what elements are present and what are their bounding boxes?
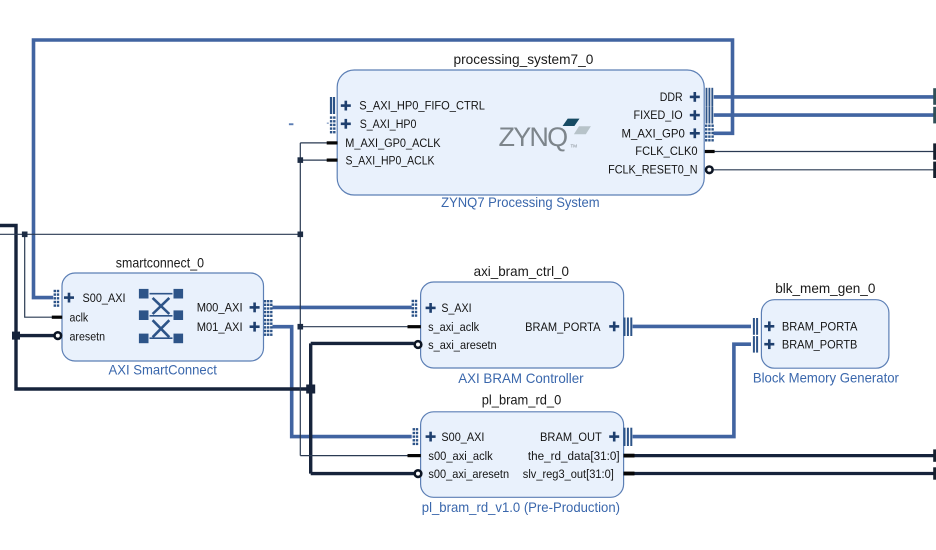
input/output pin stub M_AXI_GP0_ACLK xyxy=(327,141,338,144)
block axi_bram_ctrl_0 xyxy=(421,282,624,368)
plus icon DDR xyxy=(690,92,700,102)
wire net M_AXI_GP0 to S00_AXI xyxy=(34,40,733,298)
interface pin marker (dashed) M01_AXI xyxy=(264,319,273,336)
plus icon BRAM_OUT xyxy=(609,432,619,442)
wire net clk branch M_AXI_GP0_ACLK xyxy=(300,142,327,144)
svg-text:M01_AXI: M01_AXI xyxy=(197,320,243,334)
svg-text:s_axi_aresetn: s_axi_aresetn xyxy=(428,338,497,352)
wire net DDR to edge xyxy=(714,95,935,99)
plus icon BRAM_PORTA (bmg) xyxy=(764,321,774,331)
svg-text:BRAM_PORTB: BRAM_PORTB xyxy=(782,338,858,352)
wire net aresetn main from left edge xyxy=(0,226,311,390)
wire net BRAM_PORTA xyxy=(633,325,751,329)
edge port marker slv_reg3_out xyxy=(933,467,936,479)
input/output pin stub slv_reg3_out xyxy=(624,472,635,476)
plus icon BRAM_PORTA ctrl xyxy=(609,322,619,332)
block pl_bram_rd_0 xyxy=(421,412,624,498)
wire net clk branch s_axi_aclk xyxy=(300,326,408,328)
interface pin marker (dashed) S00_AXI pl xyxy=(413,428,419,445)
input/output pin stub aclk xyxy=(52,316,62,319)
wire junction xyxy=(298,157,304,163)
svg-text:M_AXI_GP0: M_AXI_GP0 xyxy=(622,127,685,141)
input/output pin stub the_rd_data xyxy=(624,454,635,458)
svg-text:BRAM_PORTA: BRAM_PORTA xyxy=(782,320,858,334)
plus icon FIXED_IO xyxy=(690,110,700,120)
svg-text:ZYNQ7 Processing System: ZYNQ7 Processing System xyxy=(441,195,600,210)
block processing_system7_0 xyxy=(337,70,704,195)
svg-text:aresetn: aresetn xyxy=(70,329,106,343)
stray dash artifact xyxy=(289,123,294,125)
wire net slv_reg3_out bus to edge xyxy=(624,472,935,475)
wire junction xyxy=(22,232,28,238)
edge port marker FIXED_IO xyxy=(933,107,936,124)
svg-text:DDR: DDR xyxy=(660,90,683,104)
wire net aresetn branch to smartconnect xyxy=(16,334,54,337)
wire net M00_AXI to S_AXI xyxy=(273,306,412,310)
interface pin marker (dashed) M00_AXI xyxy=(264,300,273,317)
stray dash artifact 2 xyxy=(327,123,329,124)
reset pin circle s_axi_aresetn xyxy=(415,341,422,348)
svg-text:Block Memory Generator: Block Memory Generator xyxy=(753,370,899,385)
svg-text:ZYNQ: ZYNQ xyxy=(499,122,568,152)
reset pin circle FCLK_RESET0_N xyxy=(706,167,713,174)
svg-text:BRAM_PORTA: BRAM_PORTA xyxy=(525,320,601,334)
interface pin marker (solid) DDR xyxy=(706,88,714,106)
input/output pin stub FCLK_CLK0 xyxy=(705,150,715,153)
interface pin marker (dashed) S_AXI xyxy=(412,300,418,317)
wire net aresetn branch to axi_bram_ctrl xyxy=(311,342,414,345)
svg-text:s00_axi_aclk: s00_axi_aclk xyxy=(428,449,493,463)
svg-text:processing_system7_0: processing_system7_0 xyxy=(454,52,594,67)
ZYNQ logo flag dark xyxy=(563,119,580,126)
edge port marker the_rd_data xyxy=(933,449,936,461)
wire net M01_AXI to S00_AXI (pl_bram) xyxy=(273,327,412,437)
wire net clk branch to smartconnect aclk xyxy=(25,234,53,317)
plus icon S_AXI xyxy=(426,303,436,313)
svg-text:TM: TM xyxy=(571,144,578,149)
wire net FCLK_CLK0 to edge xyxy=(715,151,935,153)
svg-text:S_AXI_HP0: S_AXI_HP0 xyxy=(360,117,417,131)
plus icon BRAM_PORTB xyxy=(764,339,774,349)
svg-text:AXI BRAM Controller: AXI BRAM Controller xyxy=(458,371,584,386)
svg-text:slv_reg3_out[31:0]: slv_reg3_out[31:0] xyxy=(523,467,614,481)
interface pin marker (solid) BRAM_PORTA bmg xyxy=(753,318,758,335)
edge port marker DDR xyxy=(933,88,936,105)
svg-text:BRAM_OUT: BRAM_OUT xyxy=(540,430,602,444)
wire junction xyxy=(298,232,304,238)
wire junction xyxy=(298,324,304,330)
plus icon S_AXI_HP0_FIFO_CTRL xyxy=(341,101,351,111)
smartconnect crossbar icon xyxy=(139,289,183,343)
edge port marker FCLK_CLK0 xyxy=(933,143,936,159)
interface pin marker (solid) BRAM_OUT xyxy=(624,428,633,446)
wire net FCLK_RESET0_N to edge xyxy=(713,169,934,171)
interface pin marker (dashed) S_AXI_HP0 xyxy=(330,116,336,133)
svg-text:pl_bram_rd_0: pl_bram_rd_0 xyxy=(482,393,562,408)
input/output pin stub s_axi_aclk xyxy=(408,325,421,328)
wire net clk horizontal from left edge xyxy=(0,233,300,235)
wire net clk branch S_AXI_HP0_ACLK xyxy=(300,159,327,161)
block smartconnect_0 xyxy=(62,273,264,361)
svg-text:AXI SmartConnect: AXI SmartConnect xyxy=(109,362,218,377)
reset pin circle s00_axi_aresetn xyxy=(415,470,422,477)
reset pin circle aresetn xyxy=(55,332,62,339)
input/output pin stub S_AXI_HP0_ACLK xyxy=(327,159,338,162)
wire net clk vertical riser xyxy=(299,143,301,456)
svg-text:S_AXI: S_AXI xyxy=(441,301,471,315)
interface pin marker (solid) BRAM_PORTB xyxy=(753,336,758,353)
svg-text:axi_bram_ctrl_0: axi_bram_ctrl_0 xyxy=(474,264,570,279)
edge port marker FCLK_RESET0_N xyxy=(933,162,936,178)
interface pin marker (dashed) M_AXI_GP0 xyxy=(705,125,714,142)
svg-text:s00_axi_aresetn: s00_axi_aresetn xyxy=(428,467,509,481)
plus icon S00_AXI (sc) xyxy=(64,293,74,303)
plus icon S_AXI_HP0 xyxy=(341,119,351,129)
interface pin marker (dashed) S00_AXI sc xyxy=(54,290,60,307)
input/output pin stub s00_axi_aclk xyxy=(408,454,421,457)
wire net BRAM_OUT to BRAM_PORTB xyxy=(633,344,751,436)
interface pin marker (solid) BRAM_PORTA ctrl xyxy=(624,318,633,337)
plus icon M_AXI_GP0 xyxy=(690,128,700,138)
svg-text:FCLK_RESET0_N: FCLK_RESET0_N xyxy=(608,163,698,177)
svg-text:smartconnect_0: smartconnect_0 xyxy=(116,256,204,271)
wire net clk branch s00_axi_aclk xyxy=(300,455,408,457)
svg-text:S00_AXI: S00_AXI xyxy=(83,291,126,305)
ZYNQ logo flag light xyxy=(574,126,591,134)
wire net FIXED_IO to edge xyxy=(714,113,935,117)
wire junction xyxy=(306,385,315,394)
svg-text:S_AXI_HP0_ACLK: S_AXI_HP0_ACLK xyxy=(346,153,435,167)
svg-text:FIXED_IO: FIXED_IO xyxy=(634,108,683,122)
svg-text:FCLK_CLK0: FCLK_CLK0 xyxy=(635,144,697,158)
interface pin marker (solid) S_AXI_HP0_FIFO_CTRL xyxy=(330,97,335,114)
svg-text:aclk: aclk xyxy=(70,310,89,324)
svg-text:the_rd_data[31:0]: the_rd_data[31:0] xyxy=(528,449,620,463)
svg-text:M00_AXI: M00_AXI xyxy=(197,301,243,315)
svg-text:S00_AXI: S00_AXI xyxy=(441,430,484,444)
plus icon M01_AXI xyxy=(250,322,260,332)
svg-text:S_AXI_HP0_FIFO_CTRL: S_AXI_HP0_FIFO_CTRL xyxy=(359,99,485,113)
svg-text:blk_mem_gen_0: blk_mem_gen_0 xyxy=(775,281,876,296)
wire net aresetn vertical riser xyxy=(309,343,312,473)
block blk_mem_gen_0 xyxy=(761,300,889,369)
svg-text:pl_bram_rd_v1.0 (Pre-Productio: pl_bram_rd_v1.0 (Pre-Production) xyxy=(422,500,620,515)
wire net the_rd_data bus to edge xyxy=(624,454,935,457)
wire net aresetn branch to pl_bram_rd xyxy=(311,472,414,475)
plus icon M00_AXI xyxy=(250,303,260,313)
wire junction xyxy=(12,332,20,340)
interface pin marker (solid) FIXED_IO xyxy=(706,106,714,123)
svg-text:s_axi_aclk: s_axi_aclk xyxy=(428,320,480,334)
svg-text:M_AXI_GP0_ACLK: M_AXI_GP0_ACLK xyxy=(345,136,440,150)
plus icon S00_AXI (pl) xyxy=(426,432,436,442)
